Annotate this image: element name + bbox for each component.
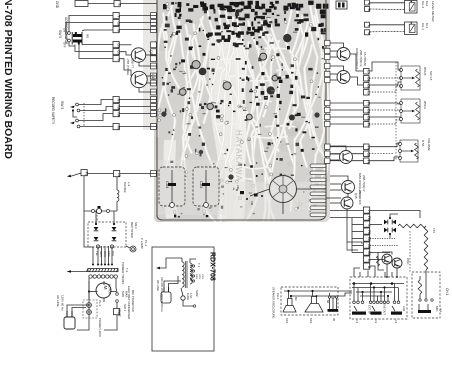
screw hole center-bottom (228, 174, 233, 179)
svg-text:SP2: SP2 (309, 318, 313, 324)
transformer (monitor coil) (72, 32, 89, 45)
svg-text:C54: C54 (432, 228, 436, 233)
svg-text:RO: RO (86, 34, 90, 39)
svg-text:1.0A: 1.0A (189, 293, 193, 299)
svg-text:P LAMP: P LAMP (140, 238, 144, 249)
svg-text:GRN: GRN (99, 251, 103, 257)
switch SW3 record safety (51, 97, 84, 128)
svg-text:RE: RE (367, 237, 371, 242)
MIC jack box J-1 (412, 272, 443, 318)
audio output label (355, 48, 367, 69)
svg-text:SW 7: SW 7 (123, 304, 127, 312)
wire bundle rectifier to T1 (84, 211, 114, 266)
wires stack A to pot (350, 54, 401, 92)
level meter M-1 (405, 22, 430, 35)
svg-text:2SB-77(N)×2: 2SB-77(N)×2 (359, 50, 363, 67)
jack contact row (353, 301, 400, 304)
capacitor C63 outline on PCB (193, 167, 219, 207)
transformer T2 (bias osc) on PCB (270, 176, 297, 203)
wires stack C to pot (330, 143, 400, 161)
screw hole right (314, 112, 319, 117)
svg-text:C62: C62 (236, 185, 239, 190)
svg-text:RDX-708: RDX-708 (209, 252, 216, 281)
audio output transistors Q13 Q11 (337, 48, 350, 84)
svg-text:TA-7061AP: TA-7061AP (363, 52, 367, 66)
svg-text:C63: C63 (199, 181, 204, 189)
PCB right-edge terminal pads (310, 164, 326, 217)
wires audio output (330, 43, 344, 80)
jack J-2 (391, 306, 402, 323)
screw hole mid (199, 150, 203, 154)
wires from jack box up to stack (354, 266, 392, 277)
svg-text:SW6: SW6 (121, 291, 125, 298)
dashed wire to MIC box (409, 231, 411, 272)
svg-text:MOTOR: MOTOR (108, 284, 112, 294)
svg-text:L-2: L-2 (127, 182, 131, 187)
oscillator transistors circuit (377, 252, 411, 278)
LEVEL METER label (431, 1, 435, 22)
capacitor C64 outline on PCB (159, 167, 185, 207)
arrow to chassis from T1 (67, 270, 89, 273)
svg-text:SW 1-5: SW 1-5 (429, 71, 433, 81)
svg-text:Q12: Q12 (151, 74, 155, 80)
wires SW5 cluster (66, 16, 113, 59)
terminal box F2 with ground arrow (67, 170, 88, 178)
connector boxes top right of PCB (336, 1, 347, 9)
jack panel box J-4 J-3 J-2 (350, 277, 407, 319)
svg-text:8Ω: 8Ω (326, 300, 329, 303)
pilot lamp PL-3 (83, 281, 102, 318)
CH-1 label right (445, 288, 449, 296)
screw hole top-left area (161, 111, 166, 116)
svg-text:M-2: M-2 (425, 1, 429, 6)
wire colour labels bundle (95, 251, 115, 257)
svg-text:GN: GN (116, 43, 120, 49)
svg-text:2SB-77: 2SB-77 (131, 58, 135, 68)
svg-text:PB: PB (367, 230, 371, 235)
AC LINE 120V label (56, 295, 65, 311)
plug inside RDX box (161, 276, 181, 303)
svg-text:ELECTRET CONDENSER: ELECTRET CONDENSER (127, 286, 131, 319)
wires SW3 cluster (73, 100, 113, 127)
svg-text:PL-1: PL-1 (144, 240, 148, 247)
pot R56A (400, 99, 428, 123)
speaker SP1 (283, 291, 298, 324)
jack box internal wires (352, 282, 404, 301)
svg-text:J-4: J-4 (355, 319, 359, 323)
svg-text:PL-3: PL-3 (98, 300, 102, 307)
speaker enclosure box (272, 287, 339, 319)
wire vertical from F2 down (83, 176, 85, 240)
terminal boxes sound monitor (lower) (113, 42, 120, 62)
svg-text:BIAS OSCILLATOR: BIAS OSCILLATOR (358, 173, 362, 198)
dashed ground bus vertical (395, 62, 397, 160)
svg-text:N-708 PRINTED WIRING BOARD: N-708 PRINTED WIRING BOARD (2, 0, 14, 159)
svg-text:HAYAKAWA: HAYAKAWA (234, 130, 243, 182)
transformer T-1 inside RDX box (156, 258, 201, 288)
diode bridge right (370, 211, 420, 239)
svg-text:RB: RB (367, 251, 371, 256)
terminal stack A (364, 69, 371, 97)
bias oscillator label (358, 173, 366, 198)
svg-text:SW 3: SW 3 (60, 101, 64, 109)
svg-text:CH-1: CH-1 (421, 23, 425, 30)
voltage taps labels (195, 274, 203, 280)
svg-text:VM: VM (366, 159, 370, 164)
PCB left-edge terminal boxes (151, 13, 157, 177)
svg-text:CH-1: CH-1 (445, 288, 449, 296)
svg-text:C64: C64 (165, 181, 170, 189)
switch SW7 (104, 304, 127, 330)
capacitor C70 row (84, 206, 117, 222)
bias oscillator transistors Q14 Q16 (340, 151, 355, 194)
svg-text:-708 (TONE): -708 (TONE) (126, 58, 130, 75)
transistor Q12 (131, 71, 155, 87)
svg-text:240V: 240V (195, 274, 197, 280)
POWER LOCK label (98, 318, 102, 337)
wires F2 choke to PCB (88, 173, 158, 175)
svg-text:C61: C61 (250, 201, 253, 206)
svg-text:CH-1: CH-1 (276, 293, 280, 300)
PCB right-edge terminal boxes (325, 40, 330, 163)
svg-text:J-1: J-1 (439, 308, 443, 312)
svg-text:T: T (116, 16, 120, 18)
PCB outline border (157, 0, 326, 220)
transistor Q10 (131, 48, 153, 62)
watermark text HAYAKAWA on PCB (234, 130, 243, 182)
svg-text:200V: 200V (201, 274, 203, 280)
transistor Q15 (326, 190, 362, 250)
level meter M-2 (405, 1, 430, 14)
switch SW5 sound monitor (58, 17, 70, 48)
wires SW5 terminals to PCB (120, 4, 158, 30)
svg-text:CHOKE: CHOKE (123, 182, 127, 193)
label 2SB-77 tone output (126, 58, 135, 75)
RDX-708 export version box (152, 247, 216, 351)
GND terminal box top-left (55, 1, 121, 9)
svg-text:R56 A: R56 A (423, 101, 427, 109)
svg-text:R 56: R 56 (421, 140, 425, 147)
svg-text:M: M (367, 32, 371, 35)
svg-text:SW2: SW2 (195, 290, 199, 297)
svg-text:J9: J9 (332, 318, 336, 321)
motor wiring loop (77, 281, 116, 330)
svg-text:SW7: SW7 (117, 309, 121, 316)
svg-text:T-1: T-1 (125, 268, 129, 273)
svg-text:R56 B: R56 B (423, 67, 427, 75)
svg-text:SR-1: SR-1 (134, 222, 138, 229)
schematic overlay on PCB: bias osc wiring (236, 185, 326, 214)
svg-text:VOLUME: VOLUME (427, 138, 431, 151)
wires stack B to pot (330, 103, 401, 124)
terminal stack B (364, 101, 371, 129)
wires SW3 terminals to PCB (120, 100, 158, 127)
pot R56B (400, 66, 434, 90)
page title: N-708 PRINTED WIRING BOARD (rotated) (2, 0, 14, 159)
svg-text:GN: GN (116, 50, 120, 56)
meander wire horizontal (398, 224, 426, 228)
svg-text:Q15: Q15 (354, 193, 358, 199)
meter wires (370, 3, 405, 32)
terminal boxes sound monitor (upper) (113, 13, 120, 33)
svg-text:EXT SP: EXT SP (368, 305, 372, 314)
svg-text:VM: VM (366, 145, 370, 150)
AC LINE 240V label (156, 277, 164, 312)
motor M (96, 283, 112, 298)
svg-text:MIC: MIC (435, 306, 439, 312)
svg-text:POWER LOCK: POWER LOCK (98, 318, 102, 337)
terminal boxes SW3 (113, 97, 120, 131)
svg-text:POWER TRANS: POWER TRANS (121, 262, 125, 284)
svg-text:2SB-77(N)×2: 2SB-77(N)×2 (362, 175, 366, 192)
jack J-4 (352, 306, 366, 323)
svg-text:SPEAKER ENCLOSURE: SPEAKER ENCLOSURE (272, 287, 276, 319)
ELECTRET CONDENSER MIC POWER SW label (127, 286, 135, 319)
svg-text:RECORD SAFETY: RECORD SAFETY (51, 97, 55, 125)
label C54 (432, 228, 436, 233)
svg-text:RECTIFIER: RECTIFIER (130, 222, 134, 239)
svg-text:AUX: AUX (402, 306, 406, 312)
svg-text:LEVEL METER: LEVEL METER (431, 1, 435, 22)
AC plug 120V (64, 305, 89, 329)
svg-text:RED: RED (107, 251, 111, 257)
meander wire vertical to MIC box (424, 226, 428, 276)
jack J-3 (371, 306, 382, 323)
svg-text:PB: PB (367, 216, 371, 221)
pilot lamp PL-1 (126, 238, 148, 252)
svg-text:GND: GND (55, 1, 59, 9)
terminal stack C (364, 144, 371, 165)
svg-text:CH-2: CH-2 (421, 1, 425, 8)
terminal box choke and choke L-2 (114, 171, 132, 212)
svg-text:OSC: OSC (406, 258, 410, 265)
rectifier SR-1 bridge (88, 222, 138, 248)
jack J9 in enclosure (326, 296, 338, 322)
svg-text:SP1: SP1 (285, 318, 289, 324)
svg-text:M-1: M-1 (425, 23, 429, 28)
svg-text:120V 60 Hz: 120V 60 Hz (61, 295, 65, 311)
wires bias osc (330, 146, 348, 190)
svg-text:MIC POWER SW: MIC POWER SW (131, 290, 135, 312)
svg-text:L: L (367, 25, 371, 27)
dashed links to stack (370, 239, 398, 260)
fuse and SW2 inside RDX box (181, 288, 199, 307)
wires PCB bottom to terminal column (330, 194, 364, 253)
svg-text:M: M (102, 286, 108, 290)
switch SW6 (116, 288, 129, 308)
terminal column bottom right (364, 207, 371, 269)
svg-text:240,220,200,400V 50/60 Hz: 240,220,200,400V 50/60 Hz (160, 277, 164, 312)
power transformer T1 (87, 262, 130, 284)
svg-text:AC LINE: AC LINE (56, 295, 60, 307)
svg-text:J-2: J-2 (394, 319, 398, 323)
svg-text:AC LINE: AC LINE (156, 280, 160, 291)
svg-text:8Ω: 8Ω (294, 297, 298, 300)
svg-text:LINE OUT: LINE OUT (383, 303, 387, 315)
svg-text:T-1: T-1 (197, 263, 201, 268)
jack labels EXT SP LINE AUX (368, 303, 407, 315)
svg-text:SW 5: SW 5 (58, 30, 62, 38)
enclosure wires (284, 290, 352, 297)
pot volume R56 (399, 138, 432, 162)
svg-text:220V: 220V (198, 274, 200, 280)
speaker SP2 (305, 291, 323, 324)
meter terminal boxes (365, 0, 372, 35)
svg-text:J-3: J-3 (374, 319, 378, 323)
wires Q10 Q12 to PCB (119, 45, 157, 92)
svg-text:OFF: OFF (63, 42, 67, 48)
